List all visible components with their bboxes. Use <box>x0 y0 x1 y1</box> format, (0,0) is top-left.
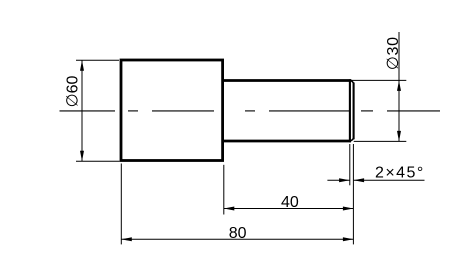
svg-text:40: 40 <box>281 194 299 211</box>
extension line dia30 top <box>352 79 406 81</box>
arrow dia30 up <box>397 80 401 91</box>
extension line dia30 bottom <box>354 140 407 142</box>
arrow dia30 down <box>397 131 401 142</box>
small cylinder top edge <box>222 79 351 82</box>
extension line dia60 top <box>76 59 119 61</box>
arrow 40 right <box>343 207 354 211</box>
extension line for 40 dim at step <box>223 165 225 215</box>
arrow 80 right <box>343 237 354 241</box>
extension line for 80 dim left <box>120 164 122 245</box>
extension line chamfer <box>349 144 351 185</box>
svg-text:80: 80 <box>229 225 247 242</box>
svg-text:∅60: ∅60 <box>65 76 82 108</box>
chamfer corner diagonal bottom <box>351 138 354 141</box>
svg-text:∅30: ∅30 <box>385 36 402 70</box>
arrow 40 left <box>224 207 235 211</box>
svg-text:2×45°: 2×45° <box>375 165 425 182</box>
chamfer corner diagonal top <box>351 80 354 83</box>
small cylinder bottom edge <box>222 140 351 143</box>
extension line at right end (shared 40/80) <box>352 144 354 244</box>
arrow dia60 up <box>80 60 84 71</box>
dimension line 40 <box>224 208 354 210</box>
shaft end face <box>353 83 355 140</box>
dimension line dia60 <box>81 60 83 161</box>
part outline: large cylinder body (front view rectangle) <box>121 60 223 161</box>
center line (dash-dot axis) <box>60 110 441 112</box>
arrow 80 left <box>121 237 132 241</box>
extension line dia60 bottom <box>76 160 120 162</box>
dimension line 80 <box>121 238 353 240</box>
arrow dia60 down <box>80 151 84 162</box>
chamfer leader line right <box>354 179 425 181</box>
chamfer edge line on cylinder <box>349 79 351 142</box>
chamfer leader line left <box>327 179 349 181</box>
dimension line dia30 <box>398 32 400 141</box>
arrow chamfer pointing left <box>354 178 365 182</box>
arrow chamfer pointing right <box>339 178 350 182</box>
